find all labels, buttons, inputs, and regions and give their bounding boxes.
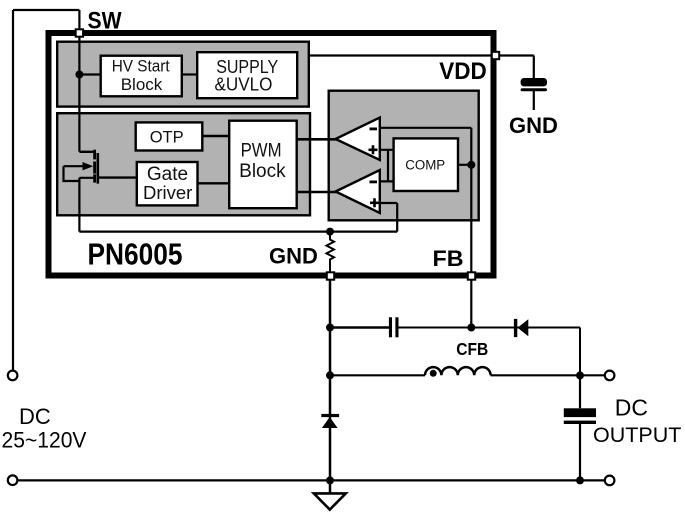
node: output x inductor row (576, 371, 584, 379)
terminal: DC output - (605, 476, 615, 486)
svg-text:CFB: CFB (456, 339, 488, 359)
wire: comparator2 plus down to source rail (381, 203, 398, 232)
node: GND x bottom rail (326, 476, 334, 484)
svg-text:VDD: VDD (439, 58, 487, 85)
wire: COMP output (458, 164, 472, 166)
node: SW junction (75, 71, 83, 79)
terminal: DC input + (8, 371, 18, 381)
MOSFET Q1 drain bend (79, 151, 94, 153)
block COMP (394, 138, 458, 191)
node: GND rail junction (326, 228, 334, 236)
wire: cap row to corner (399, 328, 581, 376)
wire: SW net vertical (78, 10, 80, 152)
node: FB x cap row (467, 324, 475, 332)
MOSFET Q1 gate bar (97, 153, 100, 184)
svg-text:GND: GND (269, 244, 318, 269)
block HV Start Block (101, 56, 182, 97)
capacitor on VDD (decoupling) (521, 78, 547, 86)
wire: Gate Driver to PWM (198, 182, 230, 184)
block Gate Driver (137, 162, 198, 205)
MOSFET Q1 body arrow (64, 165, 85, 167)
svg-text:HV Start: HV Start (112, 57, 170, 76)
wire: PWM output to comparator 2 (297, 191, 337, 194)
wire: comparator1 minus to FB net (381, 127, 472, 129)
terminal: DC output + (605, 371, 615, 381)
wire: output vertical (579, 375, 581, 481)
capacitor C (snubber) plates (389, 317, 392, 337)
wire: inductor to output node (491, 374, 605, 376)
inductor polarity dot (430, 370, 437, 377)
block OTP (136, 122, 203, 150)
wire: inductor row (330, 374, 425, 376)
svg-text:OTP: OTP (150, 127, 184, 146)
node: output x bottom rail (576, 476, 584, 484)
gray block: startup section (57, 42, 309, 107)
wire: OTP to PWM (202, 135, 230, 137)
svg-text:SW: SW (88, 7, 122, 34)
svg-text:25~120V: 25~120V (2, 428, 87, 453)
block PWM Block (229, 121, 297, 209)
svg-text:OUTPUT: OUTPUT (593, 423, 681, 447)
svg-text:FB: FB (433, 246, 464, 271)
svg-text:PN6005: PN6005 (88, 237, 183, 272)
MOSFET Q1 channel segments (93, 150, 96, 160)
diode D2 (freewheel, pointing up) (321, 414, 339, 417)
pin SW (76, 29, 83, 36)
capacitor Cout plates (564, 408, 596, 417)
wire: HV to SUPPLY (181, 73, 197, 75)
op-amp comparator 2 (336, 170, 380, 213)
wire: left input rail (13, 10, 79, 371)
wire: MOSFET source rail to GND node (79, 231, 397, 233)
diode D1 (series, pointing left) (514, 319, 517, 337)
svg-text:&UVLO: &UVLO (215, 75, 273, 95)
pin FB (468, 272, 475, 279)
svg-text:PWM: PWM (241, 141, 282, 162)
node: GND x inductor row (326, 371, 334, 379)
pin GND (327, 272, 334, 279)
svg-text:Block: Block (239, 161, 286, 182)
block SUPPLY & UVLO (197, 52, 297, 98)
MOSFET Q1 source loop (64, 166, 94, 231)
svg-text:COMP: COMP (405, 157, 445, 172)
wire: comparator1 plus / comparator2 minus to COMP (381, 150, 394, 182)
wire: GND net vertical below pin (329, 279, 332, 494)
ground symbol (314, 493, 346, 509)
svg-text:Block: Block (121, 75, 163, 94)
svg-text:DC: DC (19, 404, 51, 429)
svg-text:Driver: Driver (143, 182, 192, 203)
wire: FB net vertical to pin and below (470, 128, 472, 328)
gray block: control section (57, 113, 310, 215)
svg-text:GND: GND (509, 113, 558, 138)
resistor on GND rail (327, 232, 335, 273)
wire: snubber cap row (330, 326, 389, 329)
op-amp comparator 1 (336, 118, 380, 161)
IC outline PN6005 (49, 33, 494, 276)
pin VDD (492, 52, 499, 59)
svg-text:DC: DC (615, 395, 648, 421)
wire: SW to HV Start Block (79, 73, 100, 75)
wire: PWM output to comparator 1 (297, 138, 337, 141)
wire: bottom rail (17, 479, 605, 481)
wire: Gate Driver to MOSFET gate (99, 176, 138, 178)
gray block: comparator section (329, 91, 479, 221)
node: COMP output junction (467, 161, 475, 169)
terminal: DC input - (8, 475, 18, 485)
inductor CFB (425, 367, 491, 375)
node: GND x cap row (326, 324, 334, 332)
wire: VDD net (309, 56, 534, 111)
